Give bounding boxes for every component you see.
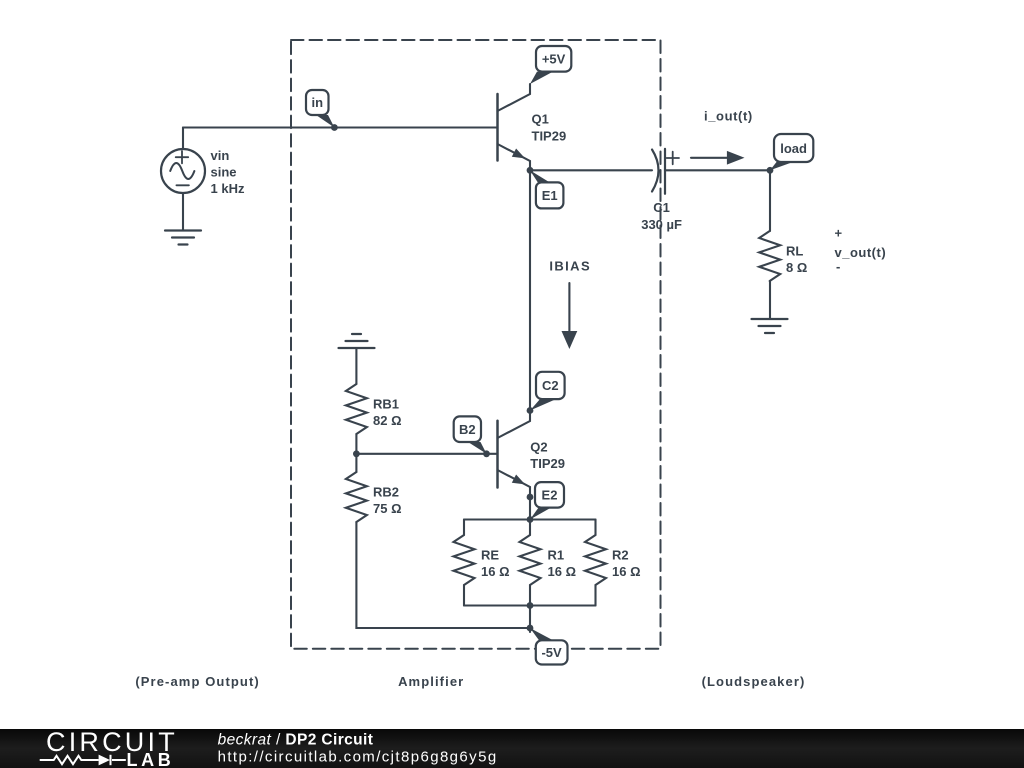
label v_out(t) <box>835 226 887 275</box>
label Q1 TIP29 <box>532 112 567 144</box>
wire RB1 to junction <box>355 434 357 454</box>
footer bar <box>0 729 1024 768</box>
svg-text:beckrat / DP2 Circuit: beckrat / DP2 Circuit <box>218 732 374 749</box>
svg-text:E1: E1 <box>542 188 558 203</box>
svg-text:TIP29: TIP29 <box>532 128 567 143</box>
label RL 8ohm <box>786 244 807 276</box>
node flag E2 <box>530 482 564 519</box>
svg-text:16 Ω: 16 Ω <box>548 564 577 579</box>
svg-text:B2: B2 <box>459 422 476 437</box>
wire E1 to C1 <box>530 169 652 171</box>
wire junction to RB2 <box>355 454 357 472</box>
resistor RL <box>759 231 780 281</box>
resistor RB2 <box>346 472 367 522</box>
svg-text:R2: R2 <box>612 548 629 563</box>
node flag load <box>770 134 813 170</box>
amplifier boundary dashed box <box>291 40 661 649</box>
svg-text:1 kHz: 1 kHz <box>211 181 245 196</box>
rail top junction <box>527 516 534 523</box>
svg-text:IBIAS: IBIAS <box>549 259 591 274</box>
wire RE stubs <box>463 520 465 606</box>
wire E2 to rail <box>529 497 531 520</box>
svg-text:RL: RL <box>786 244 803 259</box>
svg-text:+: + <box>835 226 843 241</box>
svg-text:82 Ω: 82 Ω <box>373 413 402 428</box>
rail bottom junction <box>527 602 534 609</box>
wire R2 stubs <box>594 520 596 606</box>
svg-text:Amplifier: Amplifier <box>398 674 464 689</box>
svg-text:vin: vin <box>211 148 230 163</box>
wire RB2 to -5V rail <box>356 522 530 628</box>
wire load to RL <box>769 170 771 231</box>
resistor R2 <box>585 535 606 585</box>
svg-text:8 Ω: 8 Ω <box>786 260 807 275</box>
svg-text:R1: R1 <box>548 548 565 563</box>
node flag C2 <box>530 372 565 411</box>
wire main input <box>183 126 498 128</box>
power flag -5V <box>530 628 568 665</box>
wire source top <box>182 128 184 150</box>
label RE 16ohm <box>481 548 510 580</box>
svg-text:(Pre-amp Output): (Pre-amp Output) <box>135 674 259 689</box>
wire source bottom <box>182 193 184 231</box>
capacitor C1 (polarized) <box>652 149 679 194</box>
svg-text:sine: sine <box>211 164 237 179</box>
IBIAS arrow <box>562 283 578 349</box>
ground (under RL) <box>752 319 788 333</box>
node in junction <box>331 124 338 131</box>
svg-text:-5V: -5V <box>541 645 562 660</box>
label RB2 75ohm <box>373 485 402 517</box>
footer logo symbol <box>40 755 126 765</box>
label Q2 TIP29 <box>530 440 565 472</box>
inverted ground (above RB1) <box>339 334 375 348</box>
wire R1 stubs <box>529 520 531 606</box>
node flag E1 <box>530 170 564 208</box>
svg-text:TIP29: TIP29 <box>530 456 565 471</box>
node E1 junction <box>527 167 534 174</box>
svg-text:RE: RE <box>481 548 499 563</box>
i_out(t) current arrow <box>691 151 745 165</box>
parallel resistor rails <box>464 520 596 606</box>
svg-text:16 Ω: 16 Ω <box>481 564 510 579</box>
node load junction <box>767 167 774 174</box>
resistor R1 <box>520 535 541 585</box>
svg-text:75 Ω: 75 Ω <box>373 501 402 516</box>
transistor Q1 <box>498 84 531 170</box>
voltage source V1 vin <box>161 149 205 193</box>
svg-text:+5V: +5V <box>542 52 566 67</box>
wire bottom rail to -5V node <box>529 606 531 633</box>
wire E1 down to C2 <box>529 170 531 410</box>
svg-text:Q2: Q2 <box>530 440 547 455</box>
node B2 junction <box>483 450 490 457</box>
label R2 16ohm <box>612 548 641 580</box>
svg-text:i_out(t): i_out(t) <box>704 109 753 124</box>
svg-text:in: in <box>312 95 324 110</box>
svg-text:C1: C1 <box>653 200 670 215</box>
value label vin sine 1kHz <box>211 148 245 196</box>
node E2 junction <box>527 494 534 501</box>
resistor RE <box>454 535 475 585</box>
wire RL to ground <box>769 281 771 319</box>
svg-text:LAB: LAB <box>127 750 175 768</box>
svg-text:-: - <box>836 259 840 274</box>
ground (under source) <box>165 231 201 245</box>
-5V junction <box>527 625 534 632</box>
svg-text:Q1: Q1 <box>532 112 549 127</box>
svg-text:C2: C2 <box>542 378 559 393</box>
resistor RB1 <box>346 384 367 434</box>
label C1 330uF <box>641 200 682 232</box>
svg-text:v_out(t): v_out(t) <box>835 245 887 260</box>
wire ground to RB1 <box>355 348 357 384</box>
transistor Q2 <box>498 411 531 498</box>
svg-text:E2: E2 <box>542 488 558 503</box>
svg-text:(Loudspeaker): (Loudspeaker) <box>702 674 806 689</box>
node flag in <box>306 90 334 128</box>
svg-text:RB2: RB2 <box>373 485 399 500</box>
label RB1 82ohm <box>373 397 402 429</box>
wire base B2 <box>356 453 497 455</box>
svg-text:http://circuitlab.com/cjt8p6g8: http://circuitlab.com/cjt8p6g8g6y5g <box>218 749 498 766</box>
svg-text:16 Ω: 16 Ω <box>612 564 641 579</box>
RB1-RB2 junction <box>353 450 360 457</box>
svg-text:load: load <box>780 141 807 156</box>
node C2 junction <box>527 407 534 414</box>
wire C1 to load <box>665 169 770 171</box>
svg-text:RB1: RB1 <box>373 397 399 412</box>
power flag +5V <box>530 46 571 84</box>
label R1 16ohm <box>548 548 577 580</box>
svg-text:330 µF: 330 µF <box>641 217 682 232</box>
node flag B2 <box>454 416 487 453</box>
